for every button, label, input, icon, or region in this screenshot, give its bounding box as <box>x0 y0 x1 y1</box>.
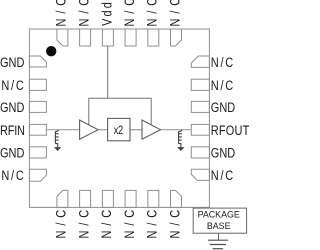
svg-text:N/C: N/C <box>167 0 182 26</box>
svg-text:GND: GND <box>211 100 236 115</box>
pin 14 GND right pad <box>191 147 209 158</box>
multiplier x2 box <box>108 118 130 140</box>
wire x2 to amp2 <box>130 129 142 131</box>
svg-text:N/C: N/C <box>99 210 114 239</box>
svg-text:GND: GND <box>0 146 25 161</box>
op-amp U2 output amplifier <box>142 120 160 139</box>
svg-text:Vdd: Vdd <box>99 2 114 26</box>
svg-text:N/C: N/C <box>211 55 234 70</box>
svg-text:N/C: N/C <box>1 168 24 183</box>
svg-text:N/C: N/C <box>145 210 160 239</box>
wire Vdd feed <box>107 46 109 98</box>
pin 21 Vdd top pad <box>102 29 113 46</box>
svg-text:GND: GND <box>211 146 236 161</box>
svg-text:RFOUT: RFOUT <box>211 123 250 138</box>
ground bars <box>208 239 228 241</box>
wire amp1 to x2 <box>98 129 108 131</box>
pin 20 N/C top pad <box>80 29 91 46</box>
inductor L1 input choke <box>55 130 58 147</box>
pin 8 N/C bottom pad <box>80 190 91 207</box>
pin 12 N/C bottom-right pad <box>171 190 182 207</box>
pin 4 RFIN left pad <box>29 124 46 135</box>
wire RFOUT <box>160 129 191 131</box>
pin 9 N/C bottom pad <box>102 190 113 207</box>
package outline <box>29 29 209 207</box>
svg-text:N/C: N/C <box>167 210 182 239</box>
svg-text:N/C: N/C <box>211 78 234 93</box>
pin 2 N/C left pad <box>29 79 46 90</box>
svg-text:N/C: N/C <box>54 0 69 26</box>
svg-text:x2: x2 <box>114 124 124 137</box>
svg-text:GND: GND <box>0 55 25 70</box>
pin 22 N/C top pad <box>125 29 136 46</box>
op-amp U1 input amplifier <box>80 120 98 139</box>
ground stem <box>218 233 220 240</box>
svg-text:BASE: BASE <box>207 221 231 231</box>
ground arrow L1 <box>54 147 61 151</box>
ground arrow L2 <box>177 147 184 151</box>
svg-text:N/C: N/C <box>1 78 24 93</box>
svg-text:N/C: N/C <box>76 0 91 26</box>
pin 10 N/C bottom pad <box>125 190 136 207</box>
pin 23 N/C top pad <box>148 29 159 46</box>
pin 6 N/C left pad <box>29 169 46 181</box>
pin 13 N/C right pad <box>191 169 209 180</box>
pin 11 N/C bottom pad <box>148 190 159 207</box>
pin 3 GND left pad <box>29 101 46 112</box>
pin 16 GND right pad <box>191 101 209 112</box>
pin 7 N/C bottom-left pad <box>57 190 68 207</box>
pin 19 N/C top-left pad <box>57 29 68 46</box>
svg-text:RFIN: RFIN <box>0 123 25 138</box>
svg-text:N/C: N/C <box>54 210 69 239</box>
svg-text:N/C: N/C <box>211 168 234 183</box>
pin 18 N/C right pad <box>191 56 209 67</box>
wire bias rail <box>89 98 151 125</box>
svg-text:N/C: N/C <box>145 0 160 26</box>
pin 15 RFOUT right pad <box>191 124 209 135</box>
svg-text:N/C: N/C <box>122 0 137 26</box>
inductor L2 output choke <box>179 130 182 147</box>
pin 5 GND left pad <box>29 147 46 158</box>
pin 17 N/C right pad <box>191 79 209 90</box>
pin 24 N/C top-right pad <box>171 29 182 46</box>
pin 1 dot <box>46 46 56 56</box>
svg-text:PACKAGE: PACKAGE <box>198 209 240 219</box>
svg-text:N/C: N/C <box>122 210 137 239</box>
wire RFIN <box>46 129 79 131</box>
svg-text:N/C: N/C <box>76 210 91 239</box>
package base box <box>193 208 246 233</box>
pin 1 GND left pad <box>29 56 46 67</box>
svg-text:GND: GND <box>0 100 25 115</box>
